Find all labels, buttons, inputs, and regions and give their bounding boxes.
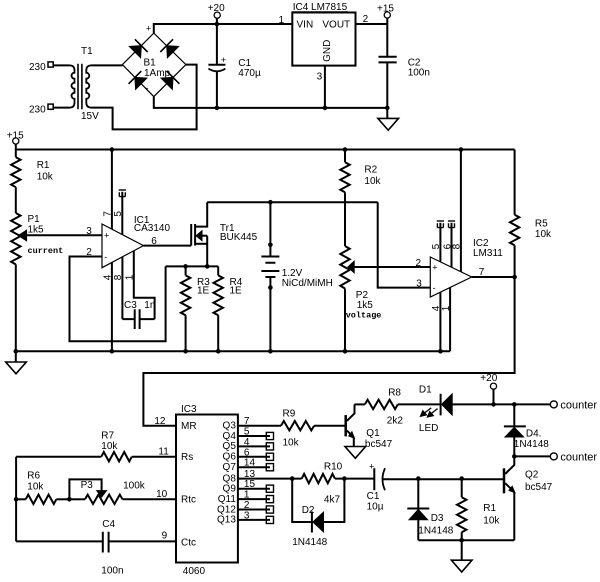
svg-text:10k: 10k — [27, 481, 44, 492]
wire IC1 pin2 — [70, 247, 166, 341]
terminal counter 1 — [550, 400, 597, 412]
junction — [459, 476, 464, 481]
svg-text:+15: +15 — [7, 130, 24, 141]
junction — [268, 349, 273, 354]
pin 12 label — [154, 416, 166, 427]
wire Q8 output — [238, 478, 302, 480]
capacitor C1 10u — [367, 461, 503, 512]
svg-text:7: 7 — [479, 267, 485, 278]
junction — [491, 402, 496, 407]
svg-text:+: + — [221, 55, 226, 65]
svg-text:5: 5 — [113, 211, 124, 217]
svg-text:10k: 10k — [101, 441, 118, 452]
wire IC1 pin4 — [103, 262, 114, 351]
svg-text:2: 2 — [86, 247, 92, 258]
wire drain to battery/pin3 — [207, 201, 378, 203]
wire +15 rail — [16, 149, 515, 151]
open pin Q5 — [238, 443, 274, 450]
junction — [110, 349, 115, 354]
svg-text:CA3140: CA3140 — [134, 223, 171, 234]
svg-text:P1: P1 — [28, 214, 41, 225]
junction — [416, 476, 421, 481]
svg-text:7: 7 — [103, 211, 114, 217]
svg-text:10k: 10k — [364, 176, 381, 187]
wire IC2 pin1 — [441, 287, 452, 351]
wire IC2 pin7 output — [472, 267, 515, 278]
svg-text:1: 1 — [125, 274, 136, 280]
svg-text:T1: T1 — [81, 46, 93, 57]
terminal counter 2 — [550, 452, 597, 464]
junction — [205, 264, 210, 269]
svg-text:GND: GND — [322, 40, 333, 62]
wire secondary top to bridge — [91, 64, 122, 66]
diode D1 LED — [419, 384, 494, 434]
junction — [14, 349, 19, 354]
wire to counter 1 — [494, 403, 551, 405]
svg-text:+: + — [146, 24, 151, 34]
svg-text:+: + — [432, 262, 437, 272]
svg-text:R6: R6 — [27, 471, 40, 482]
junction — [459, 147, 464, 152]
wire IC1 pin5 — [113, 190, 126, 234]
wire R3 R4 top — [166, 265, 219, 267]
resistor R10 4k7 — [302, 462, 375, 506]
svg-text:C4: C4 — [102, 519, 115, 530]
open pin Q7 — [238, 464, 274, 471]
wire mains top — [53, 64, 69, 66]
wire bridge minus rail — [154, 97, 387, 108]
svg-text:100n: 100n — [101, 565, 123, 576]
resistor R4 1E — [214, 266, 243, 351]
resistor R5 10k — [510, 150, 552, 278]
svg-text:Ctc: Ctc — [181, 538, 196, 549]
pin 9 label — [162, 531, 168, 542]
node +20 bottom — [480, 373, 497, 404]
svg-text:BUK445: BUK445 — [220, 232, 258, 243]
svg-text:counter: counter — [560, 452, 597, 464]
pin 1 label — [278, 15, 284, 26]
battery 1.2V NiCd — [261, 202, 332, 351]
svg-text:8: 8 — [452, 243, 463, 249]
svg-text:D2: D2 — [302, 505, 315, 516]
svg-text:Q13: Q13 — [217, 515, 236, 526]
svg-text:1E: 1E — [197, 285, 210, 296]
node +15 supply top — [377, 4, 394, 57]
svg-text:3: 3 — [416, 278, 422, 289]
resistor R2 10k — [340, 150, 381, 247]
svg-text:4: 4 — [103, 274, 114, 280]
op-amp IC2 LM311 — [430, 238, 503, 297]
pin 11 label — [158, 447, 169, 458]
svg-text:10µ: 10µ — [367, 501, 384, 512]
resistor R1 10k bottom — [457, 479, 500, 541]
svg-text:bc547: bc547 — [365, 439, 393, 450]
svg-text:C3: C3 — [124, 300, 137, 311]
svg-text:10k: 10k — [37, 171, 54, 182]
svg-text:D3: D3 — [431, 513, 444, 524]
svg-text:1N4148: 1N4148 — [292, 537, 327, 548]
wire bridge plus rail — [154, 24, 292, 33]
wire IC2 pin4 — [431, 292, 442, 351]
svg-text:1E: 1E — [230, 285, 243, 296]
svg-text:IC3: IC3 — [181, 404, 197, 415]
svg-text:R8: R8 — [388, 387, 401, 398]
resistor R7 10k — [16, 430, 176, 461]
transformer T1 — [70, 46, 100, 122]
junction — [183, 349, 188, 354]
junction — [512, 402, 517, 407]
wire left column — [15, 457, 17, 542]
junction — [343, 147, 348, 152]
wire IC2 pin6 — [442, 221, 455, 267]
mains terminal 230V top — [29, 62, 53, 73]
counter IC3 4060 — [176, 404, 238, 577]
svg-text:R9: R9 — [283, 408, 296, 419]
wire P2 wiper to pin2 — [354, 258, 430, 269]
svg-text:3: 3 — [317, 72, 323, 83]
svg-text:2: 2 — [363, 14, 369, 25]
potentiometer P3 100k — [69, 479, 176, 504]
svg-text:230: 230 — [29, 104, 46, 115]
diode D4 1N4148 — [504, 404, 549, 456]
svg-text:1: 1 — [278, 15, 284, 26]
svg-text:R2: R2 — [364, 165, 377, 176]
svg-text:4k7: 4k7 — [324, 495, 341, 506]
svg-text:3: 3 — [86, 226, 92, 237]
pin 6 label — [151, 236, 157, 247]
ground top section — [378, 108, 399, 130]
svg-text:-: - — [146, 83, 149, 93]
resistor R8 2k2 — [355, 387, 441, 426]
LED arrows — [420, 408, 437, 417]
bridge rectifier B1 frame — [122, 24, 185, 97]
svg-text:VIN: VIN — [297, 20, 314, 31]
junction — [215, 22, 220, 27]
bridge diode bottom-left — [129, 71, 147, 89]
svg-text:R1: R1 — [483, 503, 496, 514]
svg-text:1k5: 1k5 — [28, 225, 45, 236]
svg-text:10k: 10k — [483, 516, 500, 527]
diode D2 1N4148 — [292, 479, 344, 548]
wire IC1 pin1 — [125, 251, 155, 319]
svg-text:1N4148: 1N4148 — [418, 526, 453, 537]
svg-text:Rtc: Rtc — [181, 495, 196, 506]
svg-text:Q2: Q2 — [525, 470, 539, 481]
wire P1 wiper to pin3 — [27, 234, 102, 236]
svg-text:Q7: Q7 — [223, 462, 237, 473]
junction — [385, 106, 390, 111]
svg-text:+20: +20 — [480, 373, 497, 384]
svg-text:voltage: voltage — [346, 311, 382, 321]
junction — [268, 200, 273, 205]
svg-text:Q11: Q11 — [218, 494, 237, 505]
wire IC4 pin2 — [356, 14, 388, 25]
junction — [342, 476, 347, 481]
wire IC1 output to gate — [144, 245, 192, 247]
op-amp IC1 CA3140 — [102, 215, 170, 268]
svg-text:470µ: 470µ — [238, 68, 261, 79]
junction — [110, 147, 115, 152]
svg-text:+: + — [104, 231, 109, 241]
svg-text:8: 8 — [113, 274, 124, 280]
svg-text:P3: P3 — [81, 480, 94, 491]
node +20 supply top — [208, 3, 225, 24]
svg-text:current: current — [28, 246, 64, 256]
svg-text:4060: 4060 — [183, 566, 206, 577]
capacitor C1 470u — [208, 24, 261, 108]
junction — [183, 264, 188, 269]
svg-text:Q5: Q5 — [223, 441, 237, 452]
bridge diode bottom-right — [161, 71, 179, 89]
svg-text:D1: D1 — [419, 384, 432, 395]
label voltage — [346, 311, 382, 321]
junction — [67, 497, 72, 502]
svg-text:C1: C1 — [367, 491, 380, 502]
svg-text:+: + — [369, 461, 374, 471]
wire IC2 pin8 — [452, 150, 463, 272]
junction — [323, 106, 328, 111]
ground middle section — [6, 351, 27, 374]
junction — [216, 349, 221, 354]
resistor R9 10k — [238, 408, 345, 448]
open pin Q12 — [238, 506, 274, 513]
ground Q1 — [345, 447, 366, 459]
svg-text:NiCd/MiMH: NiCd/MiMH — [282, 278, 333, 289]
resistor R3 1E — [181, 266, 210, 351]
capacitor C3 1n — [122, 300, 155, 329]
svg-text:100n: 100n — [408, 68, 430, 79]
junction — [438, 349, 443, 354]
wire secondary bottom to bridge right — [91, 65, 197, 130]
wire battery sense to pin3 — [378, 202, 431, 289]
wire emitter rail — [418, 539, 514, 541]
svg-text:1n: 1n — [144, 300, 155, 311]
junction — [512, 275, 517, 280]
svg-text:R10: R10 — [324, 462, 343, 473]
svg-text:-: - — [433, 283, 436, 293]
wire to counter 2 — [514, 455, 550, 457]
svg-text:2: 2 — [416, 258, 422, 269]
svg-text:100k: 100k — [123, 481, 146, 492]
potentiometer P2 1k5 — [340, 246, 373, 351]
wire IC1 pin7 — [103, 150, 114, 230]
svg-text:230: 230 — [29, 62, 46, 73]
svg-text:-: - — [104, 252, 107, 262]
svg-text:LM311: LM311 — [473, 248, 503, 259]
junction — [343, 349, 348, 354]
svg-text:R1: R1 — [37, 160, 50, 171]
IC3 output labels — [217, 416, 255, 526]
svg-text:Q6: Q6 — [223, 452, 237, 463]
transistor Q2 bc547 — [504, 456, 553, 540]
svg-text:9: 9 — [162, 531, 168, 542]
svg-text:Q9: Q9 — [223, 484, 237, 495]
junction — [215, 106, 220, 111]
svg-text:counter: counter — [560, 400, 597, 412]
open pin Q4 — [238, 432, 274, 439]
capacitor C2 100n — [379, 57, 430, 108]
bridge diode top-left — [129, 39, 147, 57]
ground bottom section — [451, 540, 472, 572]
node +15 rail left — [7, 130, 24, 149]
svg-text:1k5: 1k5 — [357, 300, 374, 311]
pin 10 label — [156, 489, 168, 500]
svg-text:15V: 15V — [81, 111, 99, 122]
transistor Q1 bc547 — [346, 404, 393, 450]
svg-text:12: 12 — [154, 416, 166, 427]
resistor R1 10k — [11, 150, 54, 214]
open pin Q9 — [238, 485, 274, 492]
junction — [512, 454, 517, 459]
label current — [28, 246, 64, 256]
svg-text:+20: +20 — [208, 3, 225, 14]
svg-text:10k: 10k — [535, 229, 552, 240]
wire IC1 pin8 — [113, 257, 124, 319]
open pin Q6 — [238, 453, 274, 460]
svg-text:Q1: Q1 — [366, 428, 380, 439]
svg-text:1N4148: 1N4148 — [514, 439, 549, 450]
svg-text:5: 5 — [431, 243, 442, 249]
pin 3 label — [86, 226, 92, 237]
svg-text:2k2: 2k2 — [387, 416, 404, 427]
wire mains bottom — [53, 107, 69, 109]
resistor R6 10k — [16, 471, 69, 505]
svg-text:R7: R7 — [101, 430, 114, 441]
capacitor C4 100n — [16, 519, 176, 577]
svg-text:bc547: bc547 — [525, 482, 553, 493]
svg-text:1Amp: 1Amp — [144, 68, 171, 79]
junction — [459, 538, 464, 543]
diode D3 1N4148 — [407, 479, 453, 541]
junction — [14, 497, 19, 502]
wire IC2 pin5 — [431, 221, 444, 262]
junction — [290, 476, 295, 481]
svg-text:LED: LED — [419, 423, 438, 434]
wire ground rail — [16, 350, 450, 352]
potentiometer P1 1k5 — [11, 213, 44, 351]
mosfet Tr1 BUK445 — [191, 202, 257, 266]
svg-text:VOUT: VOUT — [322, 20, 350, 31]
wire IC4 pin3 GND — [317, 66, 325, 108]
mains terminal 230V bottom — [29, 104, 53, 115]
svg-text:Rs: Rs — [181, 452, 193, 463]
svg-text:Q4: Q4 — [223, 431, 237, 442]
wire IC2 out to IC3 MR — [143, 277, 514, 426]
bridge diode top-right — [160, 39, 178, 57]
svg-text:10k: 10k — [283, 437, 300, 448]
svg-text:MR: MR — [181, 421, 197, 432]
open pin Q13 — [238, 516, 274, 523]
svg-text:D4.: D4. — [526, 429, 542, 440]
svg-text:1: 1 — [441, 305, 452, 311]
svg-text:Q12: Q12 — [217, 504, 236, 515]
open pin Q11 — [238, 496, 274, 503]
svg-text:+15: +15 — [377, 4, 394, 15]
regulator IC4 LM7815 — [292, 2, 355, 65]
